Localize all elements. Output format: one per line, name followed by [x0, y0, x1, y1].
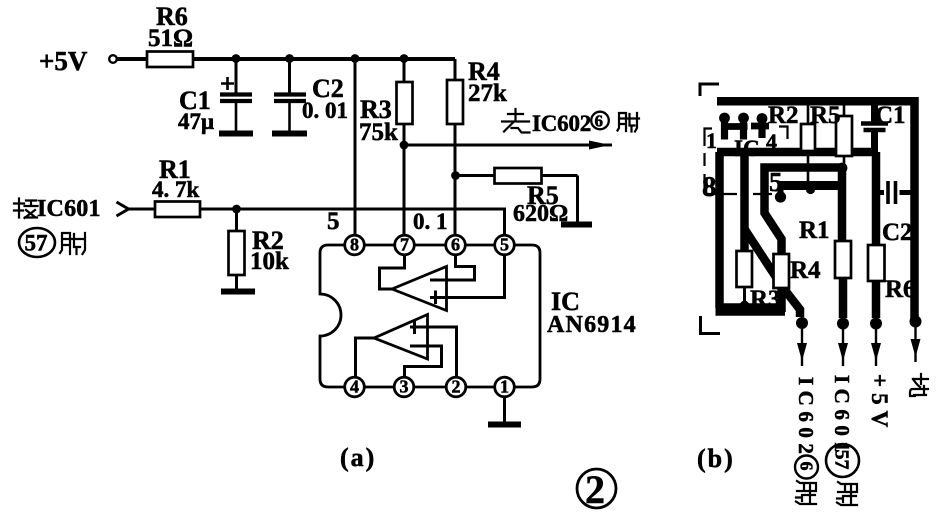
pin 5 — [495, 235, 515, 255]
wire output to IC602 with arrow — [404, 141, 612, 150]
body resistor R4 — [774, 254, 790, 288]
svg-text:620Ω: 620Ω — [513, 201, 568, 227]
svg-text:27k: 27k — [468, 80, 507, 107]
node junction rail/C2 — [285, 54, 294, 63]
node +5V supply terminal — [39, 46, 117, 76]
svg-text:57: 57 — [25, 231, 48, 256]
label R2 (b) — [768, 102, 799, 129]
svg-text:8: 8 — [350, 235, 359, 255]
op-amp U1 body outline AN6914 — [320, 245, 540, 387]
resistor R1 4.7k — [152, 155, 200, 217]
IC pad pin row with stems — [719, 113, 769, 140]
pin 3 — [394, 377, 414, 397]
trace R3 column — [740, 152, 749, 252]
svg-text:4. 7k: 4. 7k — [152, 177, 200, 202]
svg-text:(b): (b) — [697, 444, 735, 473]
lead R2 top and bottom — [807, 104, 810, 186]
svg-text:4: 4 — [766, 129, 777, 154]
svg-text:IC: IC — [734, 136, 760, 161]
op-amp B (bottom, pins 2,3,4) — [356, 315, 457, 378]
IC outline dashed — [705, 127, 788, 195]
capacitor C2 0.01 — [274, 59, 348, 131]
trace B-C link down to R1 — [838, 170, 847, 242]
svg-text:R4: R4 — [790, 257, 821, 284]
capacitor C1 47u electrolytic — [178, 59, 252, 134]
svg-text:+5V: +5V — [39, 46, 88, 76]
svg-text:R5: R5 — [810, 102, 841, 129]
svg-text:R6: R6 — [885, 276, 916, 303]
body resistor R1 — [835, 241, 851, 278]
label R3 (b) — [750, 286, 781, 313]
node input chevron — [117, 202, 129, 216]
pin 2 — [446, 377, 466, 397]
figure number 2 circled — [577, 467, 616, 512]
svg-text:75k: 75k — [359, 119, 398, 146]
svg-text:51Ω: 51Ω — [148, 25, 193, 52]
pad pin5 of IC — [775, 186, 786, 203]
resistor R3 75k — [359, 59, 413, 146]
wire R3 bottom to pin 7 — [403, 124, 406, 236]
node junction R4/R5 — [451, 171, 460, 180]
node junction R3/output wire — [400, 141, 409, 150]
svg-text:IC602: IC602 — [794, 377, 818, 459]
ground under R2 — [221, 289, 255, 295]
pad trace B right end — [837, 163, 848, 174]
pad IC601 column — [837, 318, 849, 330]
svg-text:AN6914: AN6914 — [547, 312, 637, 338]
svg-text:5: 5 — [500, 235, 509, 255]
svg-text:1: 1 — [500, 377, 509, 397]
board corner mark bottom-left — [701, 316, 721, 334]
label C1 (b) — [875, 102, 906, 129]
svg-text:2: 2 — [452, 377, 461, 397]
caption (b) — [697, 444, 735, 473]
wire pin 1 to ground — [503, 397, 506, 423]
pad +5V column — [870, 318, 882, 330]
pad on trace C — [806, 185, 815, 194]
caption (a) — [340, 443, 376, 472]
ground under C2 — [272, 131, 307, 137]
wire input to R1 — [127, 208, 156, 211]
node junction R1/R2 — [232, 205, 241, 214]
svg-text:47μ: 47μ — [178, 109, 214, 134]
svg-text:6: 6 — [451, 235, 460, 255]
trace left vertical and bottom — [716, 152, 786, 310]
label IC602 pin6 rotated — [794, 377, 818, 504]
svg-text:IC602: IC602 — [532, 111, 591, 136]
svg-text:4: 4 — [350, 377, 359, 397]
trace +5V rail horizontal — [717, 148, 878, 157]
wire +5V rail — [193, 57, 455, 61]
resistor R6 51ohm — [147, 2, 193, 67]
svg-text:C1: C1 — [875, 102, 906, 129]
pin 8 — [345, 235, 365, 255]
trace +5V column upper — [872, 152, 881, 246]
svg-text:R1: R1 — [799, 217, 830, 244]
svg-text:5: 5 — [769, 167, 783, 197]
svg-text:7: 7 — [400, 235, 409, 255]
board corner mark top-left — [700, 84, 719, 96]
ground under R5 — [561, 222, 592, 228]
label R1 (b) — [799, 217, 830, 244]
ground under pin 1 — [488, 422, 521, 428]
node junction rail/R3 — [400, 54, 409, 63]
label IC AN6914 — [547, 287, 637, 338]
svg-text:57: 57 — [831, 450, 853, 470]
label input from IC601 pin57 — [14, 196, 101, 257]
label ground (di) rotated — [910, 374, 928, 396]
svg-text:R2: R2 — [768, 102, 799, 129]
pad R3 bottom — [739, 301, 749, 311]
body resistor R5 — [836, 116, 852, 156]
label R5 (b) — [810, 102, 841, 129]
trace C pin5 row — [780, 181, 842, 190]
trace R1 bottom lead — [839, 277, 848, 318]
lead R5 — [843, 104, 846, 166]
svg-text:IC601: IC601 — [37, 196, 101, 222]
label IC pin numbers (b) — [702, 128, 783, 203]
trace R4 bottom lead — [777, 287, 786, 312]
svg-text:0. 1: 0. 1 — [413, 209, 448, 234]
pin 6 — [446, 235, 466, 255]
svg-text:+5V: +5V — [867, 374, 892, 433]
label go-to IC602 pin6 — [502, 109, 639, 136]
pad ground column — [910, 316, 922, 328]
label C2 (b) — [882, 219, 913, 246]
svg-text:3: 3 — [400, 377, 409, 397]
annotation 0.1V at pin 6 — [413, 209, 448, 234]
arrow IC602 column — [797, 329, 807, 366]
svg-text:1: 1 — [706, 128, 717, 153]
wire R4 bottom to pin 6 — [454, 124, 457, 236]
svg-text:0. 01: 0. 01 — [302, 98, 348, 123]
node junction rail/C1 — [232, 54, 241, 63]
svg-text:C2: C2 — [882, 219, 913, 246]
op-amp A (top, pins 5,6,7) — [380, 253, 505, 311]
resistor R5 620ohm — [455, 168, 578, 227]
ground under C1 — [219, 131, 253, 137]
svg-text:5: 5 — [327, 208, 340, 235]
arrow IC601 column — [838, 329, 848, 366]
lead R3 bottom — [743, 286, 746, 304]
svg-text:6: 6 — [595, 112, 604, 131]
body resistor R2 — [801, 124, 815, 151]
svg-text:8: 8 — [702, 171, 717, 203]
svg-text:10k: 10k — [250, 248, 289, 275]
pad IC602 column — [796, 317, 808, 329]
wire rail to pin 8 — [354, 59, 357, 236]
pin 1 — [495, 377, 515, 397]
arrow ground column — [911, 327, 921, 362]
capacitor C1 plates — [861, 124, 888, 131]
label R4 (b) — [790, 257, 821, 284]
trace R6 bottom lead — [872, 280, 881, 318]
wire R1 to pin 5 — [200, 209, 505, 236]
svg-text:2: 2 — [585, 467, 605, 512]
node junction rail/pin8 — [351, 54, 360, 63]
trace diagonal to IC602 pad — [745, 229, 801, 317]
pin 4 — [345, 377, 365, 397]
trace ground top + right edge — [717, 101, 915, 320]
resistor R4 27k — [447, 57, 507, 124]
capacitor C2 symbol — [876, 181, 911, 204]
resistor R2 10k — [229, 209, 290, 289]
label R6 (b) — [885, 276, 916, 303]
label IC601 pin57 rotated — [826, 375, 859, 505]
trace B with drop to R4 — [765, 168, 846, 256]
label +5V rotated — [867, 374, 892, 433]
svg-text:6: 6 — [797, 462, 817, 471]
body resistor R6 — [868, 245, 885, 281]
capacitor C1 stems — [871, 104, 878, 149]
svg-text:(a): (a) — [340, 443, 376, 472]
svg-text:R3: R3 — [750, 286, 781, 313]
pin 7 — [395, 235, 415, 255]
arrow +5V column — [871, 329, 881, 366]
body resistor R3 — [737, 251, 753, 287]
annotation 5V at pin 8 — [327, 208, 340, 235]
wire +5V terminal to R6 — [117, 57, 148, 61]
